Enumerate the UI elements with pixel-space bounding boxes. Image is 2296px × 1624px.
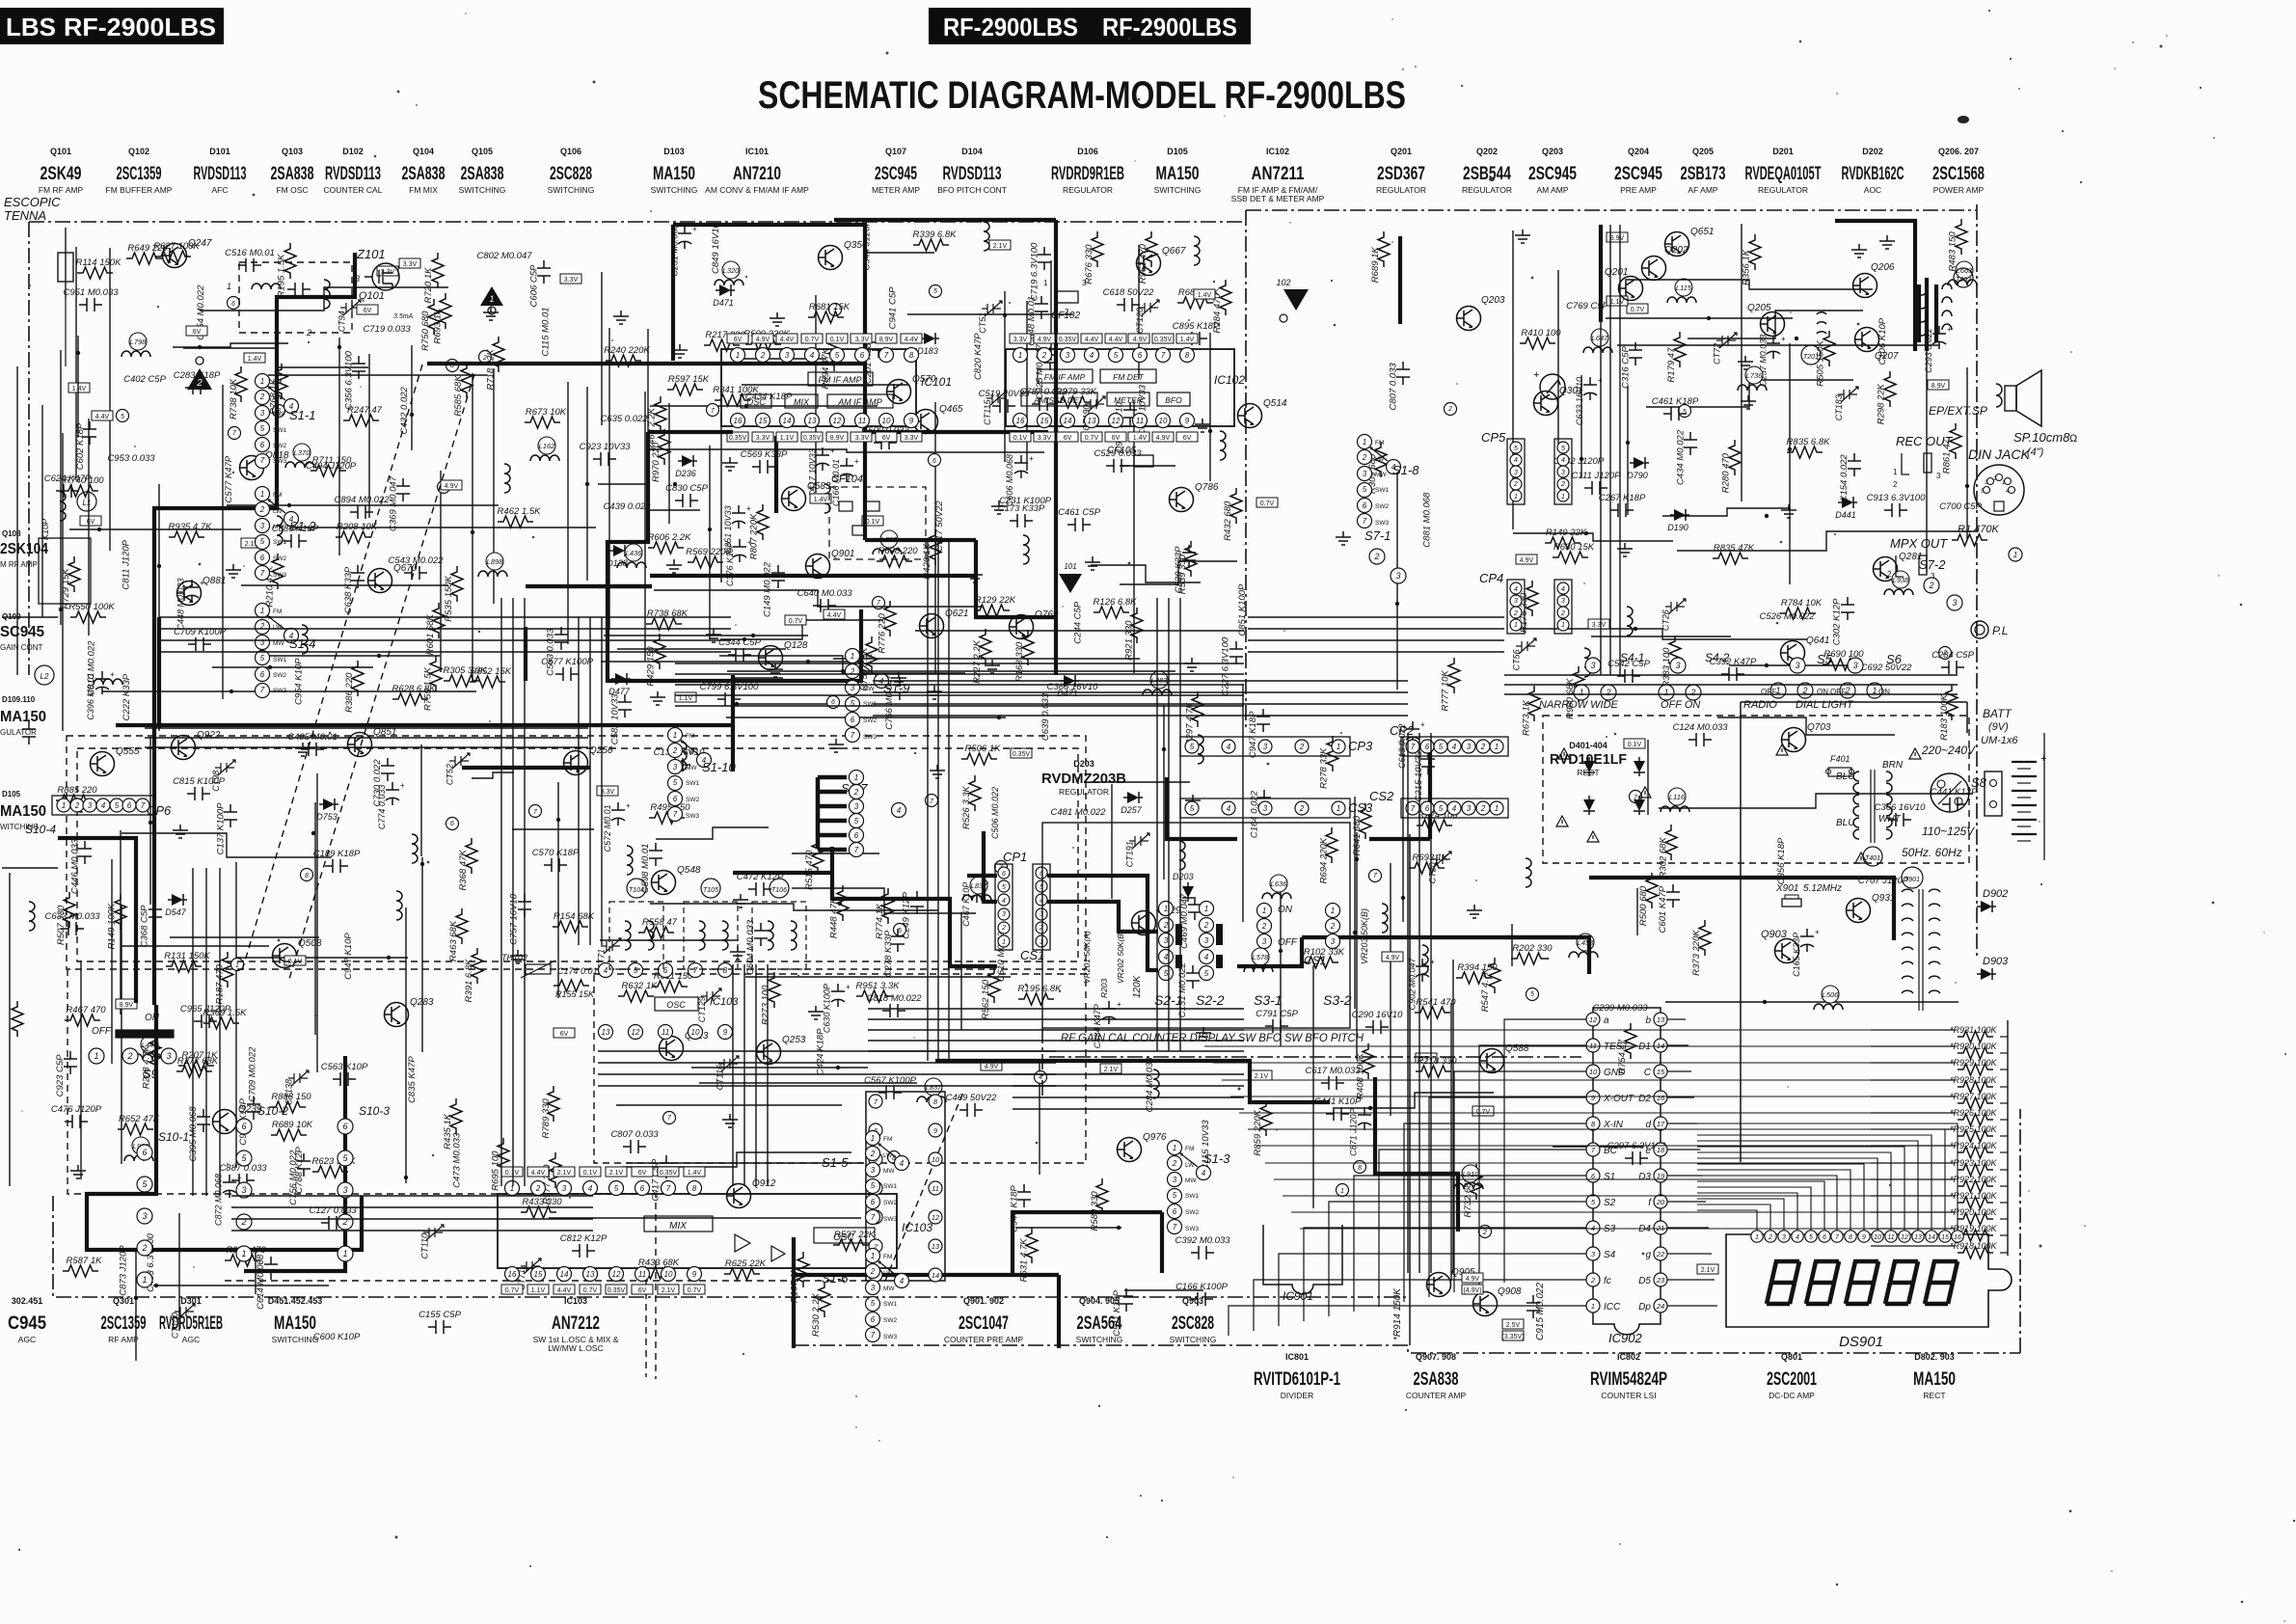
svg-text:15: 15 <box>1040 417 1049 425</box>
svg-text:POWER AMP: POWER AMP <box>1933 185 1985 195</box>
svg-text:6V: 6V <box>1112 435 1121 442</box>
svg-text:REGULATOR: REGULATOR <box>1758 185 1808 195</box>
transformer T105 <box>684 879 738 969</box>
capacitor C774 <box>377 781 405 829</box>
svg-text:2: 2 <box>672 746 678 755</box>
part label 2SK104 <box>0 529 48 569</box>
svg-text:Q703: Q703 <box>1807 722 1831 733</box>
capacitor C529 <box>1174 545 1196 593</box>
svg-text:7: 7 <box>871 1331 876 1340</box>
voltage label <box>1928 380 1949 390</box>
svg-text:BLU: BLU <box>1836 818 1855 828</box>
capacitor C563 <box>321 1062 368 1086</box>
svg-text:RVDRD9R1EB: RVDRD9R1EB <box>1051 164 1124 184</box>
svg-text:REGULATOR: REGULATOR <box>1063 185 1113 195</box>
resistor R102 <box>1303 947 1345 968</box>
svg-text:C439 0.022: C439 0.022 <box>603 501 651 512</box>
capacitor C448 <box>176 578 204 630</box>
voltage label <box>1697 1264 1718 1274</box>
svg-text:2: 2 <box>1480 743 1486 751</box>
resistor R500 <box>1638 873 1658 926</box>
svg-text:2SC1047: 2SC1047 <box>959 1313 1009 1334</box>
svg-text:R711 150: R711 150 <box>312 455 352 466</box>
wire <box>600 939 739 941</box>
wire <box>1013 1108 1244 1110</box>
svg-text:6: 6 <box>127 801 132 810</box>
wire <box>29 221 1244 223</box>
svg-text:4: 4 <box>604 966 608 975</box>
resistor R394 <box>1456 962 1498 984</box>
wire <box>1697 1204 1770 1231</box>
jack REC OUT <box>1893 434 1954 489</box>
svg-text:D903: D903 <box>1983 956 2009 967</box>
voltage label <box>186 326 207 336</box>
svg-text:OSC: OSC <box>833 1232 854 1243</box>
svg-text:L436: L436 <box>626 549 643 557</box>
resistor R183 <box>1939 685 1958 741</box>
svg-text:6: 6 <box>871 1198 876 1206</box>
svg-text:5: 5 <box>933 288 937 295</box>
capacitor C476 <box>51 1104 102 1128</box>
ground <box>733 894 748 907</box>
capacitor C606 <box>1005 454 1034 506</box>
svg-text:R391 6.8K: R391 6.8K <box>464 959 474 1003</box>
svg-text:Dp: Dp <box>1638 1302 1651 1313</box>
svg-text:1: 1 <box>1514 622 1518 629</box>
svg-text:F401: F401 <box>1830 754 1850 764</box>
wire <box>145 746 588 748</box>
wire <box>1026 301 1028 471</box>
svg-text:C601 K47P: C601 K47P <box>1658 885 1668 933</box>
capacitor C719 <box>1029 242 1051 301</box>
wire <box>586 387 588 581</box>
capacitor C344 <box>718 637 761 662</box>
svg-text:0.35V: 0.35V <box>1013 751 1031 758</box>
svg-text:C111 J120P: C111 J120P <box>1572 471 1622 481</box>
svg-text:Q786: Q786 <box>1195 482 1219 493</box>
capacitor C709 <box>174 627 227 651</box>
svg-text:LW: LW <box>273 624 283 631</box>
diode D903 <box>1977 956 2009 980</box>
svg-text:6: 6 <box>932 458 936 465</box>
resistor R681 <box>808 302 851 323</box>
svg-text:CS2: CS2 <box>1369 789 1394 803</box>
wire <box>1396 466 1398 690</box>
ground <box>1467 905 1482 918</box>
node 7 <box>663 1112 676 1124</box>
ink smudge <box>1489 177 1495 181</box>
svg-text:MA150: MA150 <box>0 709 46 725</box>
svg-text:BATT: BATT <box>1983 707 2012 720</box>
switch S1-8 <box>1358 435 1420 528</box>
resistor R507 <box>56 892 75 945</box>
svg-text:1.1V: 1.1V <box>780 435 795 442</box>
inductor L416 <box>1382 904 1388 933</box>
svg-text:7: 7 <box>693 966 698 975</box>
transistor Q548 <box>652 865 701 895</box>
wire <box>675 663 1244 664</box>
svg-text:C392 M0.033: C392 M0.033 <box>1175 1235 1230 1246</box>
svg-text:MA150: MA150 <box>274 1313 316 1334</box>
svg-text:C941 C5P: C941 C5P <box>888 286 899 329</box>
resistor R297 <box>1185 691 1203 745</box>
svg-text:C366 16V10: C366 16V10 <box>1047 682 1099 692</box>
svg-text:R720 1K: R720 1K <box>423 267 434 304</box>
svg-text:AN7210: AN7210 <box>733 164 781 184</box>
svg-text:R569 220K: R569 220K <box>686 547 732 557</box>
crystal X901 <box>1775 883 1842 907</box>
wire <box>145 737 588 739</box>
plug AC <box>1985 771 2002 816</box>
wire <box>77 336 79 437</box>
diode D441 <box>1835 497 1857 520</box>
svg-text:4: 4 <box>588 1184 593 1193</box>
svg-text:+: + <box>2040 753 2046 765</box>
svg-text:DIVIDER: DIVIDER <box>1281 1391 1313 1400</box>
wire <box>598 1050 1056 1052</box>
svg-text:C947 K18P: C947 K18P <box>1248 711 1258 758</box>
svg-text:2.1V: 2.1V <box>557 1170 572 1177</box>
svg-text:CT52: CT52 <box>445 764 454 785</box>
svg-text:C366 16V10: C366 16V10 <box>1875 802 1927 813</box>
ground <box>1741 395 1756 409</box>
wire <box>1504 935 1589 939</box>
svg-text:X-IN: X-IN <box>1603 1120 1624 1130</box>
wire <box>219 868 221 1196</box>
wire <box>121 906 122 1164</box>
transistor Q465 <box>914 404 963 434</box>
resistor R914 <box>1392 1287 1403 1340</box>
wire <box>200 287 448 311</box>
svg-text:R202 330: R202 330 <box>1512 943 1553 954</box>
svg-text:C302 K12P: C302 K12P <box>1832 598 1843 645</box>
svg-text:1: 1 <box>1173 1144 1176 1152</box>
capacitor C293 <box>1924 325 1952 373</box>
svg-text:C802 M0.047: C802 M0.047 <box>476 251 532 261</box>
voltage label <box>68 383 90 392</box>
transistor Q588 <box>1480 1043 1529 1073</box>
capacitor C302 <box>1832 597 1854 645</box>
transistor Q641 <box>1781 636 1830 665</box>
connector CP2 <box>1390 723 1508 756</box>
svg-text:IC101: IC101 <box>921 375 952 389</box>
svg-text:7: 7 <box>1173 1223 1177 1232</box>
resistor R738 <box>229 366 247 420</box>
wire <box>1049 1056 1581 1058</box>
svg-text:R562 150: R562 150 <box>981 979 991 1019</box>
inductor L432 <box>1153 1069 1159 1098</box>
svg-text:SW3: SW3 <box>686 813 699 820</box>
switch S1-2 <box>256 487 317 581</box>
wire <box>1665 1001 1958 1003</box>
ground <box>722 457 738 471</box>
svg-text:2SA838: 2SA838 <box>271 164 314 184</box>
svg-text:5: 5 <box>871 1181 876 1190</box>
svg-text:Q514: Q514 <box>1263 398 1287 409</box>
wire <box>526 584 652 588</box>
resistor R433 <box>521 1197 562 1218</box>
capacitor C485 <box>287 732 338 756</box>
svg-text:C137 K100P: C137 K100P <box>215 802 226 855</box>
svg-text:RF-2900LBS: RF-2900LBS <box>64 13 216 41</box>
svg-text:D102: D102 <box>342 147 364 156</box>
svg-text:5: 5 <box>1164 969 1169 978</box>
wire <box>120 830 122 1015</box>
wire <box>622 1152 851 1167</box>
capacitor C542 <box>1607 659 1650 683</box>
node 8 <box>888 1151 901 1164</box>
node 101 triangle <box>1059 562 1082 593</box>
svg-text:R203: R203 <box>1099 978 1109 998</box>
wire <box>69 528 241 530</box>
resistor R894 <box>821 336 840 389</box>
wire <box>865 538 976 542</box>
capacitor C164 <box>1249 790 1271 838</box>
svg-text:EP/EXT.SP: EP/EXT.SP <box>1929 404 1987 418</box>
wire <box>1697 1170 1850 1231</box>
node 1 triangle <box>480 286 503 314</box>
wire <box>578 617 580 945</box>
capacitor C290 <box>1352 1010 1404 1034</box>
svg-text:SW3: SW3 <box>273 458 286 465</box>
wire <box>1697 1129 1945 1231</box>
svg-text:C155 C5P: C155 C5P <box>419 1310 461 1320</box>
svg-text:*R927 100K: *R927 100K <box>1950 1092 1998 1101</box>
part label MA150 <box>651 147 698 195</box>
resistor R630 <box>1553 542 1595 563</box>
resistor R550 <box>68 602 115 623</box>
resistor R768 <box>268 364 287 415</box>
resistor R861 <box>1942 423 1961 474</box>
wire <box>699 1082 917 1084</box>
svg-text:*R929 100K: *R929 100K <box>1950 1058 1998 1068</box>
svg-text:SC945: SC945 <box>0 624 44 640</box>
svg-text:C638 K33P: C638 K33P <box>343 566 354 613</box>
wire <box>1120 465 1175 467</box>
resistor R195 <box>276 243 296 297</box>
svg-text:SP.10cm8: SP.10cm8 <box>2013 430 2070 445</box>
svg-text:R129 22K: R129 22K <box>975 595 1016 606</box>
wire <box>512 828 594 830</box>
voltage label <box>284 956 306 965</box>
wire <box>868 1018 1244 1020</box>
svg-text:Q667: Q667 <box>1162 246 1186 257</box>
wire <box>1450 1003 1452 1281</box>
svg-text:R606 2.2K: R606 2.2K <box>648 532 692 543</box>
switch S10-3 <box>338 1104 390 1261</box>
svg-text:3: 3 <box>1262 937 1267 946</box>
svg-text:5: 5 <box>1809 1234 1813 1241</box>
svg-text:R114 150K: R114 150K <box>76 257 122 268</box>
voltage label <box>989 240 1011 250</box>
svg-text:RF-2900LBS: RF-2900LBS <box>1102 13 1237 41</box>
svg-text:IC102: IC102 <box>1266 147 1289 156</box>
part label AN7212 <box>533 1296 619 1344</box>
part label MA150 <box>1913 1352 1956 1400</box>
part label 2SC1568 <box>1932 147 1985 195</box>
svg-text:13: 13 <box>1914 1234 1922 1241</box>
wire <box>1504 1019 1586 1283</box>
svg-text:1: 1 <box>854 773 858 782</box>
rectifier D401-404 <box>1583 757 1645 815</box>
capacitor C519 <box>979 389 1031 413</box>
resistor R690 <box>1823 649 1864 670</box>
trimmer CT120 <box>1135 300 1159 334</box>
wire <box>1917 284 1921 342</box>
svg-text:T104: T104 <box>629 887 644 894</box>
wire <box>1138 245 1140 379</box>
trimmer CT110 <box>419 1225 444 1259</box>
svg-text:110~125V: 110~125V <box>1922 825 1975 838</box>
part label 2SA838 <box>459 147 506 195</box>
wire <box>77 748 1078 961</box>
svg-text:220~240V: 220~240V <box>1921 744 1976 757</box>
svg-text:1: 1 <box>851 652 854 661</box>
wire <box>774 436 778 513</box>
wire <box>675 705 1244 707</box>
svg-text:IC103: IC103 <box>902 1221 932 1234</box>
svg-text:fc: fc <box>1604 1276 1611 1286</box>
switch S9 <box>89 1013 176 1081</box>
wire <box>598 484 700 510</box>
capacitor C154 <box>1839 453 1861 501</box>
svg-text:6: 6 <box>342 1122 347 1131</box>
svg-text:2SC828: 2SC828 <box>1172 1313 1214 1334</box>
diode D203 <box>1182 882 1194 902</box>
svg-text:1.4V: 1.4V <box>72 386 87 392</box>
ground <box>295 743 311 756</box>
svg-text:SW2: SW2 <box>686 797 699 803</box>
trimmer CT138 <box>284 1070 309 1105</box>
resistor R611 <box>652 971 693 992</box>
wire <box>268 374 487 376</box>
svg-text:SW3: SW3 <box>883 1334 897 1340</box>
voltage label <box>1627 304 1648 313</box>
svg-text:R935 4.7K: R935 4.7K <box>169 522 213 532</box>
resistor R740 <box>63 475 104 497</box>
svg-text:3.3V: 3.3V <box>1013 337 1028 343</box>
svg-text:OFF: OFF <box>1278 937 1298 948</box>
wire <box>235 862 237 1168</box>
svg-text:101: 101 <box>1064 562 1076 571</box>
resistor R369 <box>203 1008 248 1029</box>
svg-text:17: 17 <box>1657 1120 1665 1128</box>
resistor R208 <box>336 522 378 543</box>
svg-text:VR201 50K(A): VR201 50K(A) <box>1082 931 1092 984</box>
inductor L443 <box>1179 841 1185 870</box>
resistor R673 <box>1521 686 1540 736</box>
resistor R495 <box>649 802 690 824</box>
capacitor C351 <box>723 504 751 554</box>
filter CF102 <box>1043 279 1087 321</box>
svg-text:R432 680: R432 680 <box>1223 501 1233 541</box>
ink smudge <box>1958 116 1969 123</box>
wire <box>1167 777 1237 839</box>
wire <box>1418 733 1420 1273</box>
wire <box>832 847 997 966</box>
wire <box>1934 284 1938 342</box>
wire <box>2019 1109 2021 1353</box>
capacitor C951 <box>63 287 119 311</box>
capacitor C598 <box>640 843 662 893</box>
capacitor C923 <box>580 442 632 466</box>
wire <box>720 620 883 639</box>
svg-text:S5: S5 <box>1817 652 1833 666</box>
svg-text:0.1V: 0.1V <box>505 1170 520 1177</box>
svg-text:C115 M0.01: C115 M0.01 <box>541 307 552 356</box>
resistor R298 <box>1876 371 1896 424</box>
part label RVDSD113 <box>937 147 1007 195</box>
svg-text:R208 10K: R208 10K <box>337 522 378 532</box>
svg-text:FM: FM <box>686 733 694 740</box>
svg-text:SWITCHING: SWITCHING <box>272 1335 319 1344</box>
inductor L315 <box>504 464 510 493</box>
svg-text:3.3V: 3.3V <box>855 337 870 343</box>
svg-text:*R931 100K: *R931 100K <box>1950 1025 1998 1035</box>
wire <box>524 598 526 1186</box>
svg-text:AM/SSB DET: AM/SSB DET <box>1033 395 1084 405</box>
transistor Q786 <box>1170 482 1219 512</box>
transistor Q281 <box>1874 552 1923 582</box>
svg-text:7: 7 <box>854 846 859 854</box>
inductor L964 <box>1194 236 1200 265</box>
svg-text:2: 2 <box>1203 921 1209 930</box>
svg-text:3: 3 <box>1066 351 1070 360</box>
wire <box>1369 837 1430 841</box>
capacitor C267 <box>1599 493 1646 517</box>
wire <box>686 678 783 682</box>
svg-text:R168 330: R168 330 <box>1014 641 1025 682</box>
svg-text:3: 3 <box>1164 936 1169 945</box>
capacitor C606 <box>528 260 551 307</box>
svg-text:18: 18 <box>1657 1146 1665 1154</box>
svg-text:2: 2 <box>870 1150 876 1158</box>
svg-text:2SB173: 2SB173 <box>1681 164 1726 184</box>
svg-text:C757 16V10: C757 16V10 <box>509 893 520 945</box>
svg-text:3: 3 <box>1936 472 1941 480</box>
capacitor C614 <box>256 1254 278 1310</box>
wire <box>67 736 1086 969</box>
wire <box>567 382 569 644</box>
svg-text:C356 6.3V100: C356 6.3V100 <box>343 350 354 409</box>
svg-text:R641 680: R641 680 <box>1352 815 1363 855</box>
capacitor C766 <box>884 674 906 730</box>
node 7 <box>229 427 241 440</box>
svg-text:MIX: MIX <box>669 1221 687 1232</box>
svg-text:2: 2 <box>1299 804 1305 813</box>
svg-text:C165 K33P: C165 K33P <box>1792 933 1801 977</box>
wire <box>153 1285 329 1286</box>
part label 2SB173 <box>1681 147 1726 195</box>
capacitor C165 <box>1792 928 1820 977</box>
svg-text:7: 7 <box>1411 804 1416 813</box>
svg-text:14: 14 <box>932 1271 939 1280</box>
svg-text:T201: T201 <box>1803 354 1819 361</box>
ground <box>930 765 945 778</box>
switch S5 <box>1743 652 1833 711</box>
svg-text:SW2: SW2 <box>1375 503 1389 510</box>
svg-text:2: 2 <box>1172 1159 1177 1168</box>
svg-text:IC101: IC101 <box>745 147 769 156</box>
svg-text:4: 4 <box>1514 457 1518 464</box>
svg-text:C344 C5P: C344 C5P <box>718 637 761 648</box>
svg-text:1: 1 <box>1363 438 1366 447</box>
svg-text:SWITCHING: SWITCHING <box>651 185 698 195</box>
wire <box>1662 508 1791 516</box>
wire <box>937 540 939 1061</box>
capacitor C640 <box>797 588 852 612</box>
resistor R693 <box>1409 853 1448 874</box>
